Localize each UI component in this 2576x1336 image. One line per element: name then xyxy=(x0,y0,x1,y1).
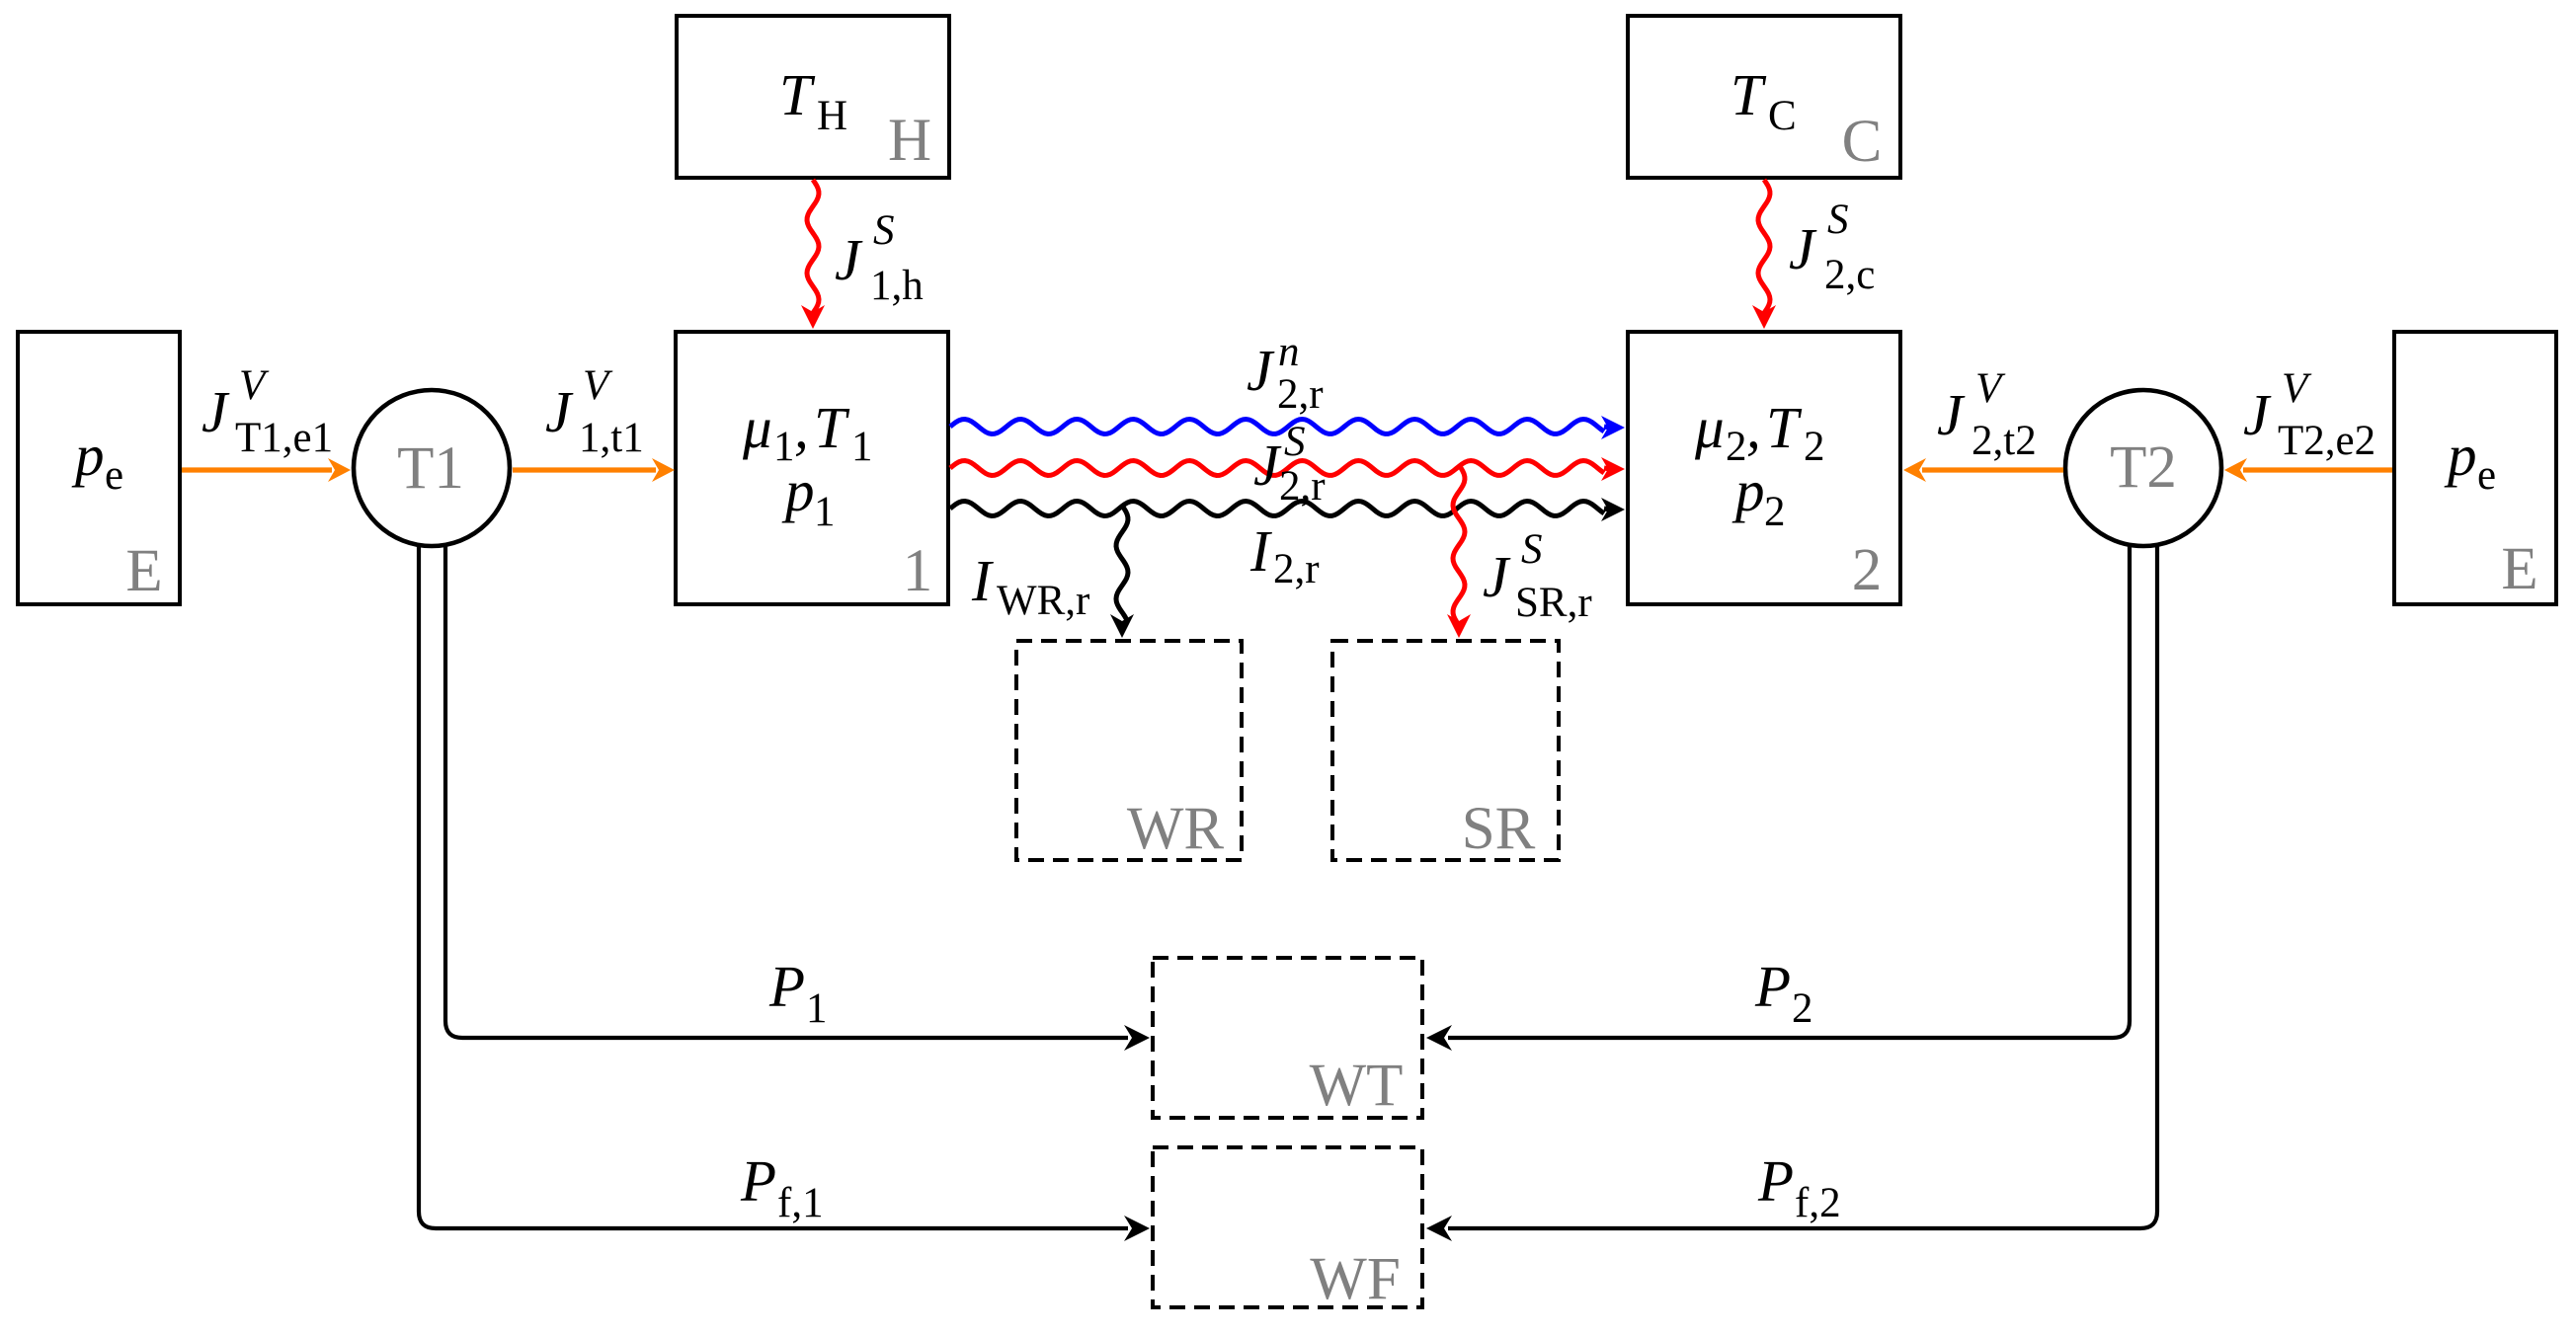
svg-text:f,2: f,2 xyxy=(1795,1180,1841,1226)
svg-text:J: J xyxy=(201,379,230,444)
svg-text:μ: μ xyxy=(1694,395,1725,460)
svg-text:T1,e1: T1,e1 xyxy=(235,415,333,461)
svg-text:T2: T2 xyxy=(2110,434,2177,501)
svg-text:P: P xyxy=(740,1148,776,1214)
svg-text:2: 2 xyxy=(1852,537,1883,603)
svg-text:e: e xyxy=(2477,452,2496,499)
svg-text:J: J xyxy=(1247,338,1275,403)
svg-text:T1: T1 xyxy=(397,435,464,502)
svg-text:I: I xyxy=(971,548,994,613)
svg-text:V: V xyxy=(2282,365,2312,412)
svg-text:,: , xyxy=(794,395,809,460)
svg-text:T: T xyxy=(814,395,850,460)
svg-text:1: 1 xyxy=(851,424,873,470)
svg-text:E: E xyxy=(125,538,162,604)
svg-text:2: 2 xyxy=(1792,985,1813,1032)
svg-text:WR: WR xyxy=(1127,796,1225,862)
svg-text:T2,e2: T2,e2 xyxy=(2278,418,2375,464)
svg-text:2,r: 2,r xyxy=(1273,546,1320,592)
svg-text:C: C xyxy=(1842,109,1883,175)
svg-text:P: P xyxy=(1754,954,1791,1019)
svg-text:p: p xyxy=(781,458,815,523)
svg-text:,: , xyxy=(1746,395,1761,460)
svg-text:p: p xyxy=(1731,458,1765,523)
svg-text:1,h: 1,h xyxy=(870,263,924,309)
svg-text:1: 1 xyxy=(903,538,933,604)
svg-text:P: P xyxy=(768,954,805,1019)
svg-text:2: 2 xyxy=(1764,489,1786,535)
svg-text:T: T xyxy=(1731,62,1767,127)
svg-text:J: J xyxy=(1937,382,1966,447)
svg-text:H: H xyxy=(817,93,847,139)
svg-text:WR,r: WR,r xyxy=(997,578,1089,624)
svg-text:J: J xyxy=(1253,432,1282,498)
svg-text:2,c: 2,c xyxy=(1824,252,1875,298)
svg-text:SR,r: SR,r xyxy=(1515,580,1592,626)
svg-text:T: T xyxy=(779,62,816,127)
svg-text:H: H xyxy=(888,108,931,174)
svg-text:WT: WT xyxy=(1310,1053,1404,1119)
svg-text:S: S xyxy=(1521,526,1543,573)
svg-text:p: p xyxy=(71,423,105,488)
svg-text:2,r: 2,r xyxy=(1279,463,1326,510)
svg-text:P: P xyxy=(1757,1148,1794,1214)
svg-text:S: S xyxy=(1284,419,1306,465)
svg-text:V: V xyxy=(239,362,270,409)
svg-text:S: S xyxy=(1827,196,1849,243)
svg-text:J: J xyxy=(1789,216,1817,281)
svg-text:2,r: 2,r xyxy=(1277,371,1324,418)
svg-text:WF: WF xyxy=(1310,1246,1401,1312)
svg-text:J: J xyxy=(835,227,863,292)
svg-text:2: 2 xyxy=(1804,424,1825,470)
svg-text:E: E xyxy=(2501,536,2537,602)
svg-text:J: J xyxy=(2243,382,2272,447)
svg-text:V: V xyxy=(1975,365,2006,412)
svg-text:1: 1 xyxy=(814,489,836,535)
svg-text:2,t2: 2,t2 xyxy=(1972,418,2037,464)
svg-text:I: I xyxy=(1249,518,1272,584)
svg-text:1,t1: 1,t1 xyxy=(579,415,644,461)
svg-text:J: J xyxy=(545,379,574,444)
svg-text:S: S xyxy=(873,207,895,254)
svg-text:e: e xyxy=(105,452,123,499)
svg-text:J: J xyxy=(1483,544,1511,609)
svg-text:μ: μ xyxy=(742,395,772,460)
svg-text:1: 1 xyxy=(806,985,828,1032)
svg-text:T: T xyxy=(1766,395,1803,460)
svg-text:f,1: f,1 xyxy=(777,1180,824,1226)
svg-text:p: p xyxy=(2444,423,2477,488)
svg-text:n: n xyxy=(1278,329,1300,375)
svg-text:SR: SR xyxy=(1462,796,1536,862)
svg-text:C: C xyxy=(1768,93,1797,139)
svg-text:V: V xyxy=(583,362,613,409)
